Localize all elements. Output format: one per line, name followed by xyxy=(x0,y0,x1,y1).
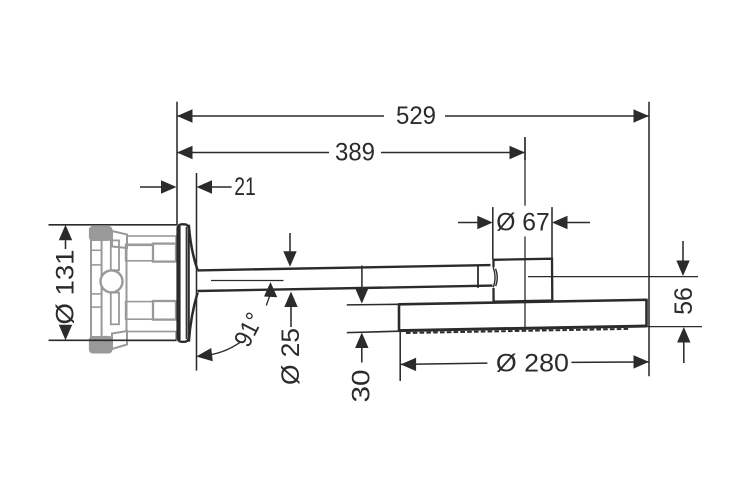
escutcheon offset vertical line (21mm) xyxy=(196,173,198,371)
shower arm bottom line xyxy=(198,286,493,291)
escutcheon cone xyxy=(189,225,198,342)
svg-text:Ø 67: Ø 67 xyxy=(496,209,550,237)
svg-text:30: 30 xyxy=(348,370,376,403)
dimension Ø 131 xyxy=(49,225,178,340)
dimension Ø 67 xyxy=(458,207,590,259)
svg-text:Ø 280: Ø 280 xyxy=(496,350,569,378)
right reference vertical line xyxy=(648,102,650,377)
inner reference line to right (56 top) xyxy=(528,276,698,278)
svg-text:56: 56 xyxy=(670,287,698,315)
dimension 389 xyxy=(177,137,525,167)
spray face dotted strip xyxy=(406,329,629,333)
dimension 56 xyxy=(670,241,698,363)
svg-text:21: 21 xyxy=(234,173,256,201)
wall reference vertical line xyxy=(176,102,178,225)
svg-text:529: 529 xyxy=(396,102,436,130)
dimension 529 xyxy=(177,102,649,130)
escutcheon wall disc xyxy=(178,224,189,341)
svg-text:389: 389 xyxy=(335,139,375,167)
dimension Ø 280 xyxy=(400,332,649,382)
dimension Ø 25 xyxy=(277,233,305,385)
arm collar seam xyxy=(477,265,479,288)
ball joint arcs inside block xyxy=(493,267,497,287)
svg-text:Ø 25: Ø 25 xyxy=(277,328,305,385)
56 bottom extension line xyxy=(647,326,703,328)
gray concealed mounting bracket xyxy=(89,226,176,353)
dimension 30 xyxy=(347,266,400,403)
connector block xyxy=(494,259,553,303)
shower arm top line xyxy=(198,265,491,270)
center vertical line of head xyxy=(524,137,526,331)
dimension 91° xyxy=(196,282,277,361)
arm centerline extension for angle xyxy=(211,280,284,282)
head plate outline xyxy=(399,299,647,331)
svg-text:Ø 131: Ø 131 xyxy=(52,250,80,325)
dimension 21 xyxy=(140,173,256,201)
